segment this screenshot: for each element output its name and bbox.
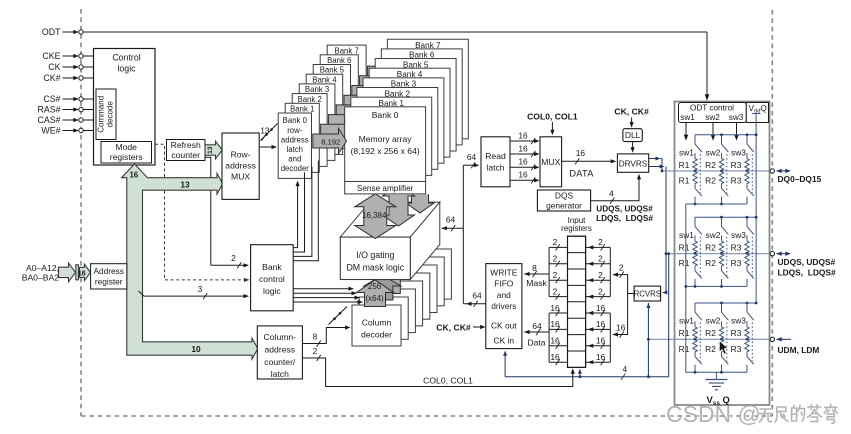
svg-text:R3: R3 <box>731 344 742 354</box>
svg-text:UDQS, UDQS#: UDQS, UDQS# <box>778 257 836 267</box>
svg-text:16: 16 <box>550 319 560 329</box>
svg-text:R1: R1 <box>679 242 690 252</box>
svg-text:Data: Data <box>527 338 545 348</box>
svg-text:COL0, COL1: COL0, COL1 <box>527 111 578 121</box>
svg-text:BA0–BA2: BA0–BA2 <box>22 273 59 283</box>
svg-text:Bank 3: Bank 3 <box>305 85 329 94</box>
svg-text:13: 13 <box>180 179 190 189</box>
svg-text:2: 2 <box>231 253 236 263</box>
svg-text:R2: R2 <box>705 344 716 354</box>
svg-text:generator: generator <box>546 200 582 210</box>
svg-text:(x64): (x64) <box>365 294 384 303</box>
svg-text:LDQS, LDQS#: LDQS, LDQS# <box>596 214 653 223</box>
svg-text:DRVRS: DRVRS <box>619 159 648 168</box>
svg-text:address: address <box>265 344 296 354</box>
svg-text:2: 2 <box>553 270 558 280</box>
svg-text:Refresh: Refresh <box>171 140 201 150</box>
svg-text:drivers: drivers <box>491 301 516 311</box>
svg-text:2: 2 <box>553 286 558 296</box>
svg-text:COL0, COL1: COL0, COL1 <box>423 375 473 385</box>
svg-text:16: 16 <box>596 352 606 362</box>
svg-text:registers: registers <box>110 152 143 162</box>
svg-text:RCVRS: RCVRS <box>634 290 661 299</box>
svg-text:R2: R2 <box>705 176 716 186</box>
svg-text:Read: Read <box>485 151 506 161</box>
svg-text:LDQS, LDQS#: LDQS, LDQS# <box>778 268 837 278</box>
svg-text:CK: CK <box>48 62 60 72</box>
svg-text:address: address <box>281 135 309 144</box>
svg-text:Bank 0: Bank 0 <box>372 110 399 120</box>
svg-text:CKE: CKE <box>42 51 60 61</box>
svg-text:sw1: sw1 <box>679 147 694 157</box>
svg-text:64: 64 <box>532 321 542 331</box>
svg-text:16,384: 16,384 <box>362 211 387 220</box>
svg-text:2: 2 <box>553 237 558 247</box>
svg-text:R2: R2 <box>705 258 716 268</box>
svg-text:CK out: CK out <box>491 321 517 331</box>
svg-text:8,192: 8,192 <box>321 138 340 147</box>
svg-text:(8,192 x 256 x 64): (8,192 x 256 x 64) <box>350 146 419 156</box>
svg-text:WRITE: WRITE <box>490 267 517 277</box>
svg-text:8: 8 <box>532 263 537 273</box>
svg-text:Bank 6: Bank 6 <box>327 56 351 65</box>
svg-text:Bank 5: Bank 5 <box>320 66 345 75</box>
svg-text:3: 3 <box>198 284 203 294</box>
svg-text:UDQS, UDQS#: UDQS, UDQS# <box>596 205 653 214</box>
svg-text:R3: R3 <box>731 328 742 338</box>
svg-text:I/O gating: I/O gating <box>356 250 394 260</box>
svg-text:R2: R2 <box>705 160 716 170</box>
svg-text:16: 16 <box>550 336 560 346</box>
svg-text:decode: decode <box>106 101 115 128</box>
svg-text:CS#: CS# <box>43 94 60 104</box>
svg-text:16: 16 <box>550 303 560 313</box>
svg-text:Bank 2: Bank 2 <box>298 95 322 104</box>
svg-text:sw2: sw2 <box>705 113 720 122</box>
svg-text:2: 2 <box>598 286 603 296</box>
svg-text:sw2: sw2 <box>706 316 721 326</box>
svg-text:R3: R3 <box>731 258 742 268</box>
svg-text:ODT: ODT <box>42 27 61 37</box>
svg-text:Bank 0: Bank 0 <box>283 116 308 125</box>
svg-text:DQS: DQS <box>555 191 574 201</box>
svg-text:R1: R1 <box>679 328 690 338</box>
svg-text:16: 16 <box>596 336 606 346</box>
svg-text:R1: R1 <box>679 258 690 268</box>
svg-text:sw2: sw2 <box>706 230 721 240</box>
svg-text:Command: Command <box>97 96 106 133</box>
svg-text:sw3: sw3 <box>731 316 746 326</box>
svg-text:Column-: Column- <box>264 332 297 342</box>
svg-text:FIFO: FIFO <box>494 279 514 289</box>
svg-text:Column: Column <box>362 318 392 328</box>
svg-text:16: 16 <box>518 157 528 167</box>
svg-text:latch: latch <box>271 369 289 379</box>
svg-text:CSDN @: CSDN @ <box>666 401 761 427</box>
svg-text:16: 16 <box>596 319 606 329</box>
svg-text:DATA: DATA <box>569 169 594 179</box>
svg-text:16: 16 <box>518 170 528 180</box>
svg-text:13: 13 <box>207 146 214 154</box>
svg-text:256: 256 <box>368 282 382 291</box>
svg-text:Control: Control <box>112 53 140 63</box>
svg-text:2: 2 <box>598 237 603 247</box>
svg-text:ODT control: ODT control <box>690 104 734 113</box>
svg-text:R1: R1 <box>679 344 690 354</box>
svg-text:sw1: sw1 <box>680 113 695 122</box>
svg-text:RAS#: RAS# <box>38 105 61 115</box>
svg-text:16: 16 <box>78 270 86 277</box>
svg-text:CAS#: CAS# <box>38 115 61 125</box>
svg-text:CK#: CK# <box>43 73 60 83</box>
svg-text:CK in: CK in <box>494 335 515 345</box>
svg-text:2: 2 <box>553 254 558 264</box>
svg-text:logic: logic <box>263 286 281 296</box>
svg-text:UDM, LDM: UDM, LDM <box>778 345 820 355</box>
svg-text:R2: R2 <box>705 242 716 252</box>
svg-text:sw3: sw3 <box>731 230 746 240</box>
svg-text:MUX: MUX <box>541 157 560 167</box>
svg-text:A0–A12,: A0–A12, <box>26 263 59 273</box>
svg-text:Mode: Mode <box>115 142 137 152</box>
svg-text:logic: logic <box>117 64 136 74</box>
svg-text:Bank 7: Bank 7 <box>335 46 359 55</box>
svg-text:2: 2 <box>598 270 603 280</box>
svg-text:latch: latch <box>287 145 303 154</box>
svg-text:Address: Address <box>93 266 123 276</box>
svg-text:16: 16 <box>550 352 560 362</box>
svg-text:Bank: Bank <box>262 262 282 272</box>
svg-text:2: 2 <box>619 263 624 273</box>
svg-text:2: 2 <box>598 254 603 264</box>
svg-text:10: 10 <box>191 344 201 354</box>
svg-text:register: register <box>95 276 123 286</box>
svg-text:Mask: Mask <box>526 278 547 288</box>
svg-text:registers: registers <box>561 224 592 233</box>
svg-text:4: 4 <box>622 364 627 374</box>
svg-text:counter: counter <box>171 150 200 160</box>
svg-text:16: 16 <box>129 171 138 180</box>
svg-text:and: and <box>497 290 511 300</box>
svg-text:16: 16 <box>616 322 626 332</box>
svg-text:DLL: DLL <box>625 130 641 140</box>
svg-text:decoder: decoder <box>281 164 310 173</box>
svg-text:Memory array: Memory array <box>359 134 413 144</box>
svg-text:sw3: sw3 <box>731 147 746 157</box>
svg-text:64: 64 <box>472 290 482 300</box>
svg-text:16: 16 <box>518 130 528 140</box>
svg-text:4: 4 <box>609 188 614 198</box>
svg-text:address: address <box>225 161 256 171</box>
svg-text:latch: latch <box>486 163 504 173</box>
svg-text:WE#: WE# <box>41 126 60 136</box>
svg-text:and: and <box>288 154 301 163</box>
svg-text:control: control <box>259 274 285 284</box>
svg-text:CK, CK#: CK, CK# <box>436 322 471 332</box>
svg-text:DQ0–DQ15: DQ0–DQ15 <box>778 174 822 184</box>
svg-text:DM mask logic: DM mask logic <box>346 263 404 273</box>
svg-text:2: 2 <box>313 346 318 356</box>
svg-text:R3: R3 <box>731 242 742 252</box>
svg-text:16: 16 <box>518 143 528 153</box>
svg-text:counter/: counter/ <box>264 357 296 367</box>
svg-text:sw2: sw2 <box>706 147 721 157</box>
svg-text:sw1: sw1 <box>679 316 694 326</box>
svg-text:Row-: Row- <box>231 150 251 160</box>
svg-text:64: 64 <box>467 152 477 162</box>
svg-text:Bank 1: Bank 1 <box>290 105 314 114</box>
svg-text:16: 16 <box>596 303 606 313</box>
svg-text:Bank 4: Bank 4 <box>312 75 337 84</box>
svg-text:sw3: sw3 <box>729 113 744 122</box>
svg-text:64: 64 <box>446 215 456 225</box>
svg-text:R3: R3 <box>731 176 742 186</box>
svg-text:16: 16 <box>576 148 586 158</box>
svg-text:R1: R1 <box>679 160 690 170</box>
svg-text:13: 13 <box>260 127 270 136</box>
svg-text:decoder: decoder <box>361 330 392 340</box>
svg-text:CK, CK#: CK, CK# <box>614 107 649 117</box>
svg-text:8: 8 <box>313 332 318 342</box>
svg-text:R2: R2 <box>705 328 716 338</box>
svg-text:Sense amplifier: Sense amplifier <box>357 184 414 193</box>
svg-text:sw1: sw1 <box>679 230 694 240</box>
svg-text:R3: R3 <box>731 160 742 170</box>
svg-text:R1: R1 <box>679 176 690 186</box>
svg-text:row-: row- <box>287 126 303 135</box>
svg-text:MUX: MUX <box>231 172 250 182</box>
